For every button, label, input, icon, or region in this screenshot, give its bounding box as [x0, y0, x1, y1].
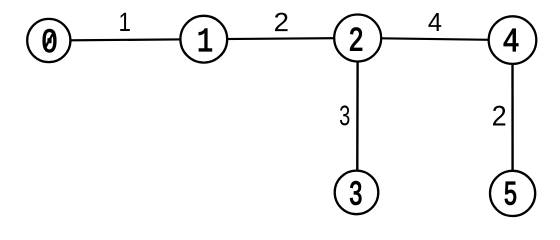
edge weight label 3 (edge 2-3) — [340, 105, 350, 125]
wire edge 2-3 — [356, 38, 359, 192]
wire edge 2-4 — [358, 38, 513, 40]
edge weight label 1 (edge 0-1) — [120, 13, 130, 31]
edge weight label 4 (edge 2-4) — [428, 13, 441, 31]
wire edge 0-1 — [49, 39, 204, 40]
edge weight label 2 (edge 4-5) — [493, 106, 505, 126]
edge weight label 2 (edge 1-2) — [275, 13, 288, 32]
node 5 — [490, 171, 535, 216]
wire edge 1-2 — [204, 38, 358, 39]
node 2 — [334, 15, 381, 62]
wire edge 4-5 — [511, 40, 513, 193]
node 1 — [180, 16, 227, 63]
node 4 — [489, 16, 537, 64]
node 3 — [335, 171, 379, 215]
node 0 — [27, 19, 70, 62]
